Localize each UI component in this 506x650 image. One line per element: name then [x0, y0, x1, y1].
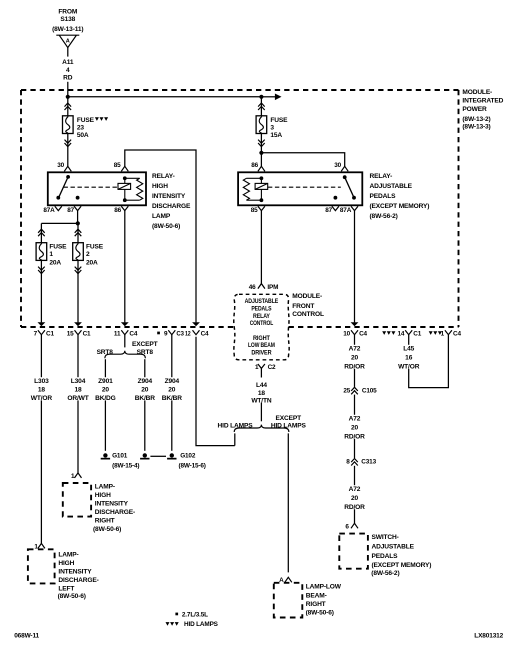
wire EXCEPT HID branch to low beam lamp [287, 433, 289, 572]
footnote square pin 9 [157, 332, 160, 335]
svg-text:1: 1 [71, 473, 75, 480]
module IPM front control blob [234, 294, 289, 360]
svg-text:BEAM-: BEAM- [306, 592, 327, 599]
terminal 86 relay1 [121, 206, 128, 210]
svg-text:(8W-15-6): (8W-15-6) [179, 463, 206, 470]
footnote square legend 2.7L/3.5L [175, 612, 208, 619]
svg-text:MODULE-: MODULE- [462, 89, 492, 96]
svg-text:G101: G101 [112, 453, 128, 460]
svg-text:G102: G102 [180, 453, 196, 460]
svg-text:HID LAMPS: HID LAMPS [271, 423, 307, 430]
arrowhead pin 12 C4 [192, 322, 200, 326]
wire bus to fuse 3 [260, 97, 262, 116]
label lamp-low beam-right [306, 584, 342, 617]
svg-text:10: 10 [343, 331, 350, 338]
wire to fuse 1 [40, 223, 42, 242]
wire pin12 leg joins HID branch [196, 337, 235, 446]
terminal 87 relay1 [74, 206, 81, 210]
split brace SRT8 variants [105, 351, 146, 358]
svg-text:C4: C4 [453, 331, 461, 338]
svg-text:1: 1 [34, 543, 38, 550]
wire SRT8 branch [104, 359, 106, 377]
svg-text:PEDALS: PEDALS [251, 306, 272, 313]
svg-text:LX801312: LX801312 [474, 633, 503, 640]
svg-text:C4: C4 [129, 331, 137, 338]
inline chevrons above fuse 3 [258, 103, 265, 110]
svg-text:(8W-56-2): (8W-56-2) [371, 570, 399, 577]
svg-text:(8W-13-3): (8W-13-3) [462, 124, 490, 131]
wire bus to fuse 23 [67, 97, 69, 116]
svg-text:(8W-13-11): (8W-13-11) [52, 26, 83, 33]
svg-text:C4: C4 [201, 331, 209, 338]
svg-text:11: 11 [114, 331, 121, 338]
wire L45 loop to pin 1 C4 [409, 335, 449, 388]
module boundary bottom edge right segment [289, 326, 459, 328]
wire L303 to HID lamp left [40, 400, 42, 543]
inline chevrons below fuse 3 [258, 140, 265, 147]
svg-text:POWER: POWER [462, 106, 487, 113]
label circuit Z904 20 BK/BR first [135, 378, 156, 402]
relay2 contact dot 87 [334, 196, 338, 200]
wire pin 9 down [171, 335, 173, 378]
svg-text:INTENSITY: INTENSITY [95, 501, 129, 508]
module boundary top edge [21, 89, 459, 91]
svg-text:RIGHT: RIGHT [306, 601, 326, 608]
relay2 coil top link [246, 177, 261, 179]
svg-text:(8W-50-6): (8W-50-6) [93, 526, 121, 533]
footnote triangles fuse 23 HID [95, 117, 108, 121]
arrowhead pin 11 C4 [121, 322, 129, 326]
wire pin 7 down [40, 335, 42, 378]
inline chevrons below fuse 1 [38, 267, 45, 274]
inline chevrons above fuse 2 [75, 229, 82, 236]
relay U1 high intensity discharge lamp box [48, 172, 146, 205]
label circuit L45 16 WT/OR [398, 346, 420, 371]
svg-text:A11: A11 [62, 59, 74, 66]
svg-text:ADJUSTABLE: ADJUSTABLE [372, 543, 415, 550]
svg-text:85: 85 [114, 162, 121, 169]
svg-text:30: 30 [334, 162, 341, 169]
svg-text:SRT8: SRT8 [137, 349, 154, 356]
svg-text:HIGH: HIGH [58, 560, 74, 567]
label circuit L304 18 OR/WT [67, 378, 88, 402]
svg-text:87: 87 [325, 207, 332, 214]
svg-text:LAMP: LAMP [152, 213, 171, 220]
wire Z904 second to ground [171, 400, 173, 450]
terminal 87 relay2 stub [332, 206, 339, 210]
svg-text:DISCHARGE-: DISCHARGE- [95, 509, 135, 516]
label circuit A72 20 RD/OR third [344, 486, 365, 511]
wire relay1 86 to pin 11 [124, 211, 126, 323]
terminal 30 relay1 [64, 166, 71, 171]
svg-text:MODULE-: MODULE- [292, 293, 322, 300]
lamp high intensity discharge left box [28, 549, 55, 583]
label lamp-high intensity discharge-left [58, 552, 99, 601]
svg-text:(8W-50-6): (8W-50-6) [58, 593, 86, 600]
terminal 1 HID lamp right [75, 473, 82, 478]
svg-text:SRT8: SRT8 [97, 349, 114, 356]
junction dot fuse 3 tap [259, 95, 263, 99]
wire C313 to A72 third [354, 466, 356, 485]
svg-text:86: 86 [251, 162, 258, 169]
label relay-adjustable pedals [370, 173, 430, 220]
svg-text:14: 14 [397, 331, 404, 338]
switch-adjustable pedals box [339, 534, 368, 569]
relay1 coil top dot [123, 176, 127, 180]
wire C105 to A72 second [354, 395, 356, 415]
split brace L44 variants [234, 425, 289, 432]
wire relay2 87A to pin 10 [354, 211, 356, 323]
svg-text:L304: L304 [71, 378, 86, 385]
footnote triangles legend HID LAMPS [166, 621, 219, 628]
fuse F2 20A [73, 243, 84, 261]
terminal 6 switch [351, 523, 358, 528]
label circuit Z904 20 BK/BR second [162, 378, 183, 402]
svg-text:87: 87 [67, 207, 74, 214]
arrowhead pin 10 C4 [351, 322, 359, 326]
svg-text:EXCEPT: EXCEPT [132, 341, 158, 348]
footnote triangles pin 1 [429, 331, 442, 335]
svg-text:18: 18 [258, 390, 266, 397]
relay1 actuator dashed link [64, 186, 118, 188]
svg-text:ADJUSTABLE: ADJUSTABLE [245, 298, 279, 305]
svg-text:LAMP-: LAMP- [95, 484, 115, 491]
svg-text:FUSE: FUSE [77, 117, 95, 124]
svg-text:S138: S138 [60, 16, 75, 23]
wire node to relay2 terminal 86 [260, 153, 262, 167]
svg-text:LEFT: LEFT [58, 586, 74, 593]
svg-text:CONTROL: CONTROL [250, 320, 274, 327]
label circuit A72 20 RD/OR first [344, 346, 365, 371]
svg-text:PEDALS: PEDALS [372, 553, 399, 560]
relay1 switch arm [59, 177, 69, 198]
lamp high intensity discharge right box [63, 483, 91, 517]
inline chevrons below fuse 2 [75, 267, 82, 274]
svg-text:(EXCEPT MEMORY): (EXCEPT MEMORY) [372, 562, 432, 569]
relay2 coil actuator box [255, 183, 268, 189]
module boundary left edge [20, 90, 22, 327]
label right low beam driver [248, 335, 275, 357]
fuse F3 15A [256, 116, 267, 134]
label circuit L44 18 WT/TN [251, 382, 272, 404]
svg-text:DRIVER: DRIVER [251, 349, 272, 356]
relay1 contact dot 87 [76, 196, 80, 200]
wire HID branch stub [234, 433, 236, 445]
wire fuse 1 to pin 7 [40, 260, 42, 322]
wire Z901 to ground [104, 400, 106, 450]
svg-text:(8W-50-6): (8W-50-6) [152, 223, 180, 230]
svg-text:3: 3 [270, 124, 274, 131]
svg-text:20A: 20A [49, 260, 61, 267]
svg-text:(EXCEPT MEMORY): (EXCEPT MEMORY) [370, 203, 430, 210]
svg-text:C2: C2 [268, 364, 276, 371]
svg-text:ADJUSTABLE: ADJUSTABLE [370, 183, 413, 190]
svg-text:RELAY-: RELAY- [370, 173, 393, 180]
relay1 coil actuator box [118, 183, 131, 189]
wire bus arrow continuation [261, 96, 276, 98]
svg-text:12: 12 [185, 331, 191, 338]
wire IPM out [260, 368, 262, 377]
svg-text:DISCHARGE: DISCHARGE [152, 203, 191, 210]
svg-text:20: 20 [351, 355, 359, 362]
inline chevrons above fuse 1 [38, 229, 45, 236]
svg-text:RIGHT: RIGHT [95, 518, 115, 525]
relay2 contact dot 87A [352, 196, 356, 200]
wire L304 to HID lamp right [77, 400, 79, 473]
label EXCEPT SRT8 branch [132, 341, 158, 356]
pin 1 C4 fork [445, 330, 452, 334]
terminal 85 relay1 [121, 166, 128, 171]
pin 11 C4 fork [121, 330, 128, 334]
svg-text:INTENSITY: INTENSITY [58, 569, 92, 576]
arrowhead pin 15 C1 [74, 322, 82, 326]
svg-text:20: 20 [102, 387, 110, 394]
relay1 contact dot 87A [56, 196, 60, 200]
svg-text:RIGHT: RIGHT [253, 335, 270, 342]
inline chevrons above fuse 23 [65, 103, 72, 110]
svg-text:20: 20 [351, 495, 359, 502]
svg-text:86: 86 [114, 207, 121, 214]
svg-text:50A: 50A [77, 132, 89, 139]
label circuit L303 18 WT/OR [31, 378, 53, 402]
label relay-high intensity discharge lamp [152, 173, 191, 230]
wire to fuse 2 [77, 223, 79, 242]
relay2 coil bottom dot [260, 198, 264, 202]
svg-text:C1: C1 [413, 331, 421, 338]
wire relay1 85 over to pin 12 C4 [125, 150, 196, 322]
svg-text:(8W-50-6): (8W-50-6) [306, 610, 334, 617]
svg-text:A72: A72 [349, 416, 361, 423]
relay1 coil top link [125, 177, 140, 179]
svg-text:EXCEPT: EXCEPT [276, 415, 302, 422]
wire Z904 first to ground [144, 400, 146, 450]
lamp low beam right box [274, 583, 303, 618]
svg-text:RD: RD [63, 75, 73, 82]
svg-text:CONTROL: CONTROL [292, 311, 324, 318]
svg-text:Z904: Z904 [165, 378, 180, 385]
svg-text:IPM: IPM [267, 284, 278, 291]
relay1 switch common dot [66, 175, 70, 179]
node S138 source [52, 9, 83, 33]
fuse F1 20A [36, 243, 47, 261]
relay1 coil bottom dot [123, 198, 127, 202]
svg-text:068W-11: 068W-11 [14, 632, 39, 639]
pin 1 C2 fork [258, 364, 265, 368]
relay2 coil bottom link [246, 199, 261, 201]
ground G102 [167, 453, 176, 459]
label circuit A11 4 RD [62, 59, 74, 82]
svg-text:SWITCH-: SWITCH- [372, 534, 399, 541]
wire fuse 3 to node [260, 134, 262, 153]
inline chevrons below fuse 23 [65, 140, 72, 147]
relay1 coil vertical wire [124, 178, 126, 200]
label EXCEPT HID LAMPS branch [271, 415, 307, 430]
svg-text:FUSE: FUSE [270, 117, 288, 124]
relay U2 adjustable pedals box [238, 172, 362, 205]
wire fuse 2 to pin 15 [77, 260, 79, 322]
label fuse 1 20A [49, 243, 67, 266]
svg-text:C1: C1 [83, 331, 91, 338]
label fuse 23 50A [77, 117, 95, 139]
inline connector C313 [351, 459, 358, 466]
svg-text:15: 15 [67, 331, 74, 338]
triangle off-page connector A [56, 35, 79, 47]
wire A72 to C105 [354, 369, 356, 387]
svg-text:RELAY-: RELAY- [152, 173, 175, 180]
svg-text:A: A [66, 39, 70, 45]
fuse F23 50A [63, 116, 74, 134]
svg-text:85: 85 [251, 207, 258, 214]
svg-text:15A: 15A [270, 132, 282, 139]
svg-text:20: 20 [351, 425, 359, 432]
wire fuse 23 to relay 30 [67, 134, 69, 167]
svg-text:FUSE: FUSE [49, 243, 67, 250]
svg-text:16: 16 [405, 355, 413, 362]
pin 9 C3 fork [168, 330, 175, 334]
wire ground tie G101 area to G102 [150, 455, 166, 457]
svg-text:C3: C3 [176, 331, 184, 338]
pin 10 C4 fork [351, 330, 358, 334]
svg-text:L303: L303 [34, 378, 49, 385]
wire fuse feed tee [41, 222, 77, 224]
svg-text:87A: 87A [43, 207, 55, 214]
relay2 switch arm [345, 177, 354, 198]
svg-text:87A: 87A [340, 207, 352, 214]
relay2 actuator dashed link [268, 186, 341, 188]
wire EXCEPT SRT8 branch [144, 359, 146, 377]
pin 12 C4 fork [193, 330, 200, 334]
label switch-adjustable pedals [371, 534, 431, 577]
svg-text:(8W-56-2): (8W-56-2) [370, 213, 398, 220]
terminal A low beam lamp [285, 577, 292, 582]
terminal 85 relay2 [258, 206, 265, 210]
svg-text:(8W-13-2): (8W-13-2) [462, 116, 490, 123]
wire L44 to split [260, 403, 262, 422]
svg-text:A: A [279, 577, 284, 584]
wire pin 15 down [77, 335, 79, 378]
svg-text:46: 46 [249, 284, 256, 291]
wire pin 11 to split [124, 335, 126, 348]
svg-text:20: 20 [141, 387, 149, 394]
terminal 87A relay1 stub [55, 206, 62, 210]
pin 14 C1 fork [405, 330, 412, 334]
inline connector C105 [351, 387, 358, 394]
label circuit Z901 20 BK/DG [95, 378, 116, 402]
svg-text:L44: L44 [256, 382, 267, 389]
relay2 switch common dot [343, 175, 347, 179]
svg-text:A72: A72 [349, 346, 361, 353]
svg-text:20: 20 [168, 387, 176, 394]
svg-text:L45: L45 [403, 346, 414, 353]
label module-front control [292, 293, 324, 318]
svg-text:Z904: Z904 [138, 378, 153, 385]
junction dot fuse 3 output [259, 151, 263, 155]
svg-text:C1: C1 [46, 331, 54, 338]
svg-text:PEDALS: PEDALS [370, 193, 397, 200]
wire pin 14 down [408, 335, 410, 345]
wire top bus [68, 96, 262, 98]
svg-text:FRONT: FRONT [292, 303, 314, 310]
svg-text:7: 7 [34, 331, 38, 338]
terminal 46 IPM [258, 284, 265, 289]
wire A72 second to C313 [354, 439, 356, 458]
svg-text:LAMP-LOW: LAMP-LOW [306, 584, 342, 591]
svg-text:RELAY: RELAY [253, 313, 271, 320]
svg-text:DISCHARGE-: DISCHARGE- [58, 577, 98, 584]
svg-text:INTENSITY: INTENSITY [152, 193, 186, 200]
label fuse 2 20A [86, 243, 104, 266]
svg-text:20A: 20A [86, 260, 98, 267]
svg-text:HIGH: HIGH [152, 183, 168, 190]
label adjustable pedals relay control [245, 298, 279, 327]
svg-text:1: 1 [441, 331, 445, 338]
svg-text:8: 8 [346, 459, 350, 466]
wire pin 10 down [354, 335, 356, 345]
arrowhead pin 7 C1 [38, 322, 46, 326]
svg-text:FROM: FROM [58, 9, 77, 16]
wire triangle to label A11 [67, 48, 69, 57]
svg-text:FUSE: FUSE [86, 243, 104, 250]
svg-text:C105: C105 [362, 387, 377, 394]
wire A11 into module [67, 82, 69, 97]
label module-integrated power [462, 89, 503, 130]
svg-text:(8W-15-4): (8W-15-4) [112, 463, 139, 470]
wire A72 third to switch [354, 509, 356, 523]
wire relay2 85 to IPM 46 [260, 211, 262, 284]
wire relay1 87 down [77, 211, 79, 224]
relay2 coil top dot [260, 176, 264, 180]
label G101 [112, 453, 139, 470]
svg-text:25: 25 [343, 387, 350, 394]
label fuse 3 15A [270, 117, 288, 139]
relay2 coil winding [243, 178, 249, 200]
junction dot fuse feed [76, 221, 80, 225]
terminal 30 relay2 [341, 166, 348, 171]
junction dot A11 bus [66, 95, 70, 99]
svg-text:18: 18 [38, 387, 46, 394]
label lamp-high intensity discharge-right [93, 484, 135, 534]
pin 15 C1 fork [75, 330, 82, 334]
module boundary bottom edge left segment [21, 326, 234, 328]
terminal 86 relay2 [258, 166, 265, 171]
svg-text:2: 2 [86, 251, 90, 258]
svg-text:4: 4 [66, 67, 70, 74]
svg-text:INTEGRATED: INTEGRATED [462, 98, 503, 105]
svg-text:18: 18 [74, 387, 82, 394]
svg-text:C4: C4 [359, 331, 367, 338]
svg-text:A72: A72 [349, 486, 361, 493]
module boundary right edge [458, 90, 460, 327]
svg-text:23: 23 [77, 124, 85, 131]
svg-text:30: 30 [57, 162, 64, 169]
svg-text:LAMP-: LAMP- [58, 552, 78, 559]
label G102 [179, 453, 206, 470]
svg-text:LOW BEAM: LOW BEAM [248, 342, 275, 349]
ground Z904 first [140, 453, 149, 459]
label circuit A72 20 RD/OR second [344, 416, 365, 441]
svg-text:HIGH: HIGH [95, 492, 111, 499]
relay2 coil vertical wire [260, 178, 262, 200]
pin 7 C1 fork [38, 330, 45, 334]
terminal 87A relay2 [351, 206, 358, 210]
svg-text:C313: C313 [361, 459, 376, 466]
svg-text:1: 1 [49, 251, 53, 258]
svg-text:HID LAMPS: HID LAMPS [184, 621, 219, 628]
wire node to relay2 terminal 30 [261, 153, 344, 167]
ground G101 [101, 453, 110, 459]
terminal 1 HID lamp left [38, 543, 45, 548]
svg-text:Z901: Z901 [98, 378, 113, 385]
